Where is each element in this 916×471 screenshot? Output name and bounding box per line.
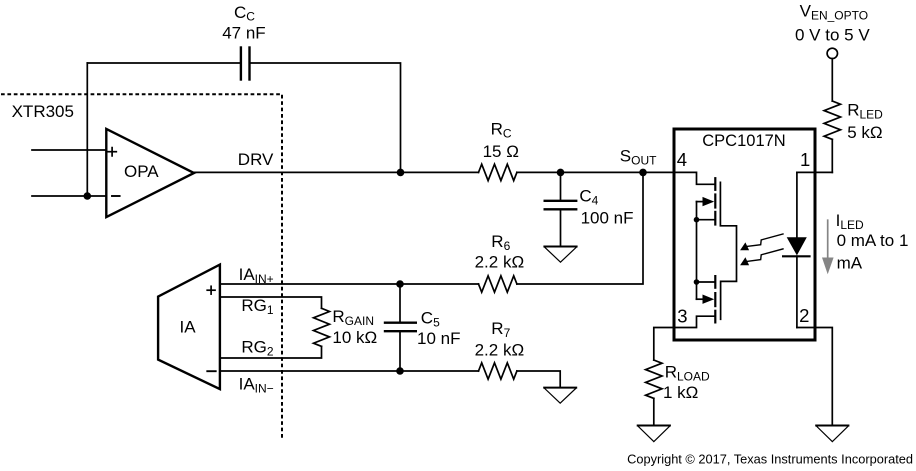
svg-text:R6: R6 — [491, 232, 510, 253]
svg-text:RGAIN: RGAIN — [332, 307, 374, 328]
svg-text:C4: C4 — [579, 186, 598, 207]
wire pin2 to ground — [797, 328, 832, 426]
svg-text:2.2 kΩ: 2.2 kΩ — [475, 253, 525, 272]
ground below C4 — [544, 247, 576, 263]
svg-text:OPA: OPA — [124, 162, 159, 181]
svg-text:SOUT: SOUT — [620, 147, 657, 168]
svg-text:DRV: DRV — [238, 150, 274, 169]
svg-text:ILED: ILED — [836, 211, 864, 232]
svg-text:mA: mA — [837, 253, 863, 272]
svg-text:0 mA to 1: 0 mA to 1 — [837, 231, 909, 250]
wire top feedback right segment — [250, 63, 400, 172]
svg-text:100 nF: 100 nF — [581, 209, 634, 228]
svg-text:5 kΩ: 5 kΩ — [847, 123, 882, 142]
capacitor C4 — [560, 172, 562, 200]
svg-text:2.2 kΩ: 2.2 kΩ — [475, 341, 525, 360]
capacitor C5 — [399, 284, 401, 322]
light arrow 1 — [748, 234, 784, 246]
svg-text:Copyright © 2017, Texas Instru: Copyright © 2017, Texas Instruments Inco… — [627, 452, 913, 467]
wire RLED to pin1 — [831, 139, 833, 172]
resistor R6 zigzag — [479, 276, 517, 292]
wire DRV output — [194, 171, 479, 173]
node C5 top junction — [396, 280, 404, 288]
resistor R7 zigzag — [479, 363, 517, 379]
wire pin3 to bottom MOSFET drain — [674, 316, 714, 327]
svg-text:IAIN−: IAIN− — [239, 375, 274, 396]
LED inside opto — [796, 172, 798, 237]
svg-text:2: 2 — [799, 305, 809, 326]
transistor M2 body arrow — [697, 298, 706, 300]
wire RG1 loop — [220, 297, 322, 308]
wire R7 to ground — [517, 371, 560, 387]
wire RLOAD to ground — [653, 398, 655, 425]
svg-text:47 nF: 47 nF — [222, 24, 265, 43]
svg-text:4: 4 — [677, 149, 687, 170]
light arrow 2 — [748, 249, 784, 261]
op-amp minus sign — [112, 195, 120, 197]
transistor M2 channel segments — [714, 276, 716, 322]
terminal VEN_OPTO circle — [827, 48, 837, 58]
svg-text:XTR305: XTR305 — [12, 102, 74, 121]
wire R6 to IA_IN+ — [220, 283, 479, 285]
wire feedback vertical from inverting input — [86, 63, 88, 196]
gate bus connecting both MOSFET gates — [720, 182, 736, 319]
resistor RLOAD zigzag — [646, 360, 662, 398]
wire pin4 to top MOSFET drain — [674, 172, 714, 184]
op-amp plus sign — [108, 148, 116, 156]
svg-text:1: 1 — [800, 149, 810, 170]
wire RG2 loop — [220, 346, 322, 358]
svg-text:R7: R7 — [491, 319, 510, 340]
wire top feedback left segment — [87, 62, 240, 64]
svg-text:RG1: RG1 — [241, 296, 274, 317]
svg-text:3: 3 — [677, 306, 687, 327]
wire OPA inverting input — [32, 195, 106, 197]
node M1 source junction — [694, 217, 700, 223]
resistor RLED zigzag — [824, 101, 840, 139]
svg-text:10 nF: 10 nF — [417, 329, 460, 348]
current arrow ILED gray — [827, 220, 829, 258]
svg-text:VEN_OPTO: VEN_OPTO — [800, 2, 868, 23]
node M2 source junction — [694, 279, 700, 285]
op-amp OPA — [106, 129, 194, 217]
svg-text:1 kΩ: 1 kΩ — [663, 383, 698, 402]
opto-coupler CPC1017N box — [674, 129, 815, 340]
wire IA_IN- line — [220, 370, 479, 372]
svg-text:C5: C5 — [421, 309, 440, 330]
node C4 junction — [557, 169, 565, 177]
transistor M1 body arrow — [697, 201, 706, 203]
wire OPA noninverting input — [32, 149, 106, 151]
wire source bus between MOSFETs — [696, 202, 698, 300]
wire SOUT to R6 line — [517, 172, 643, 284]
svg-text:15 Ω: 15 Ω — [483, 142, 519, 161]
transistor M1 channel segments — [714, 178, 716, 224]
node inverting input junction — [84, 192, 92, 200]
transistor M2 source line — [697, 281, 715, 283]
wire pin3 to RLOAD — [654, 328, 674, 361]
resistor RGAIN zigzag — [314, 308, 330, 346]
svg-text:0 V to 5 V: 0 V to 5 V — [795, 26, 870, 45]
transistor M1 source line — [697, 219, 715, 221]
ground below R7 — [544, 388, 576, 404]
capacitor CC — [241, 48, 250, 80]
ground below pin2 — [816, 426, 848, 442]
svg-text:RLOAD: RLOAD — [665, 363, 710, 384]
wire pin1 to RLED — [797, 171, 832, 173]
node SOUT junction — [639, 169, 647, 177]
instrumentation amp IA — [158, 265, 220, 390]
svg-text:IA: IA — [180, 318, 197, 337]
IA minus sign — [207, 370, 215, 372]
wire RC to opto pin4 — [517, 171, 674, 173]
IA plus sign — [207, 286, 215, 294]
svg-text:IAIN+: IAIN+ — [239, 265, 274, 286]
ground below RLOAD — [638, 426, 670, 442]
svg-text:CPC1017N: CPC1017N — [702, 132, 785, 150]
svg-text:RC: RC — [491, 120, 512, 141]
svg-text:RG2: RG2 — [241, 338, 274, 359]
wire terminal to RLED — [831, 59, 833, 101]
resistor RC zigzag — [479, 164, 517, 180]
svg-text:RLED: RLED — [847, 101, 883, 122]
XTR305 boundary dashed — [1, 94, 282, 440]
svg-text:CC: CC — [234, 3, 255, 24]
svg-text:10 kΩ: 10 kΩ — [332, 328, 377, 347]
node DRV feedback junction — [397, 169, 405, 177]
node C5 bottom junction — [396, 367, 404, 375]
